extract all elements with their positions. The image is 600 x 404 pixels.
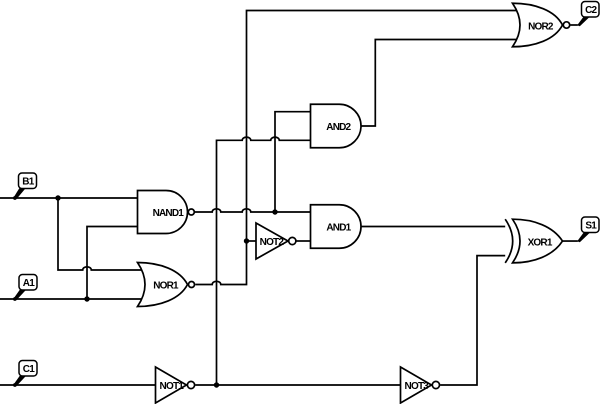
svg-text:AND1: AND1 [326, 223, 351, 234]
svg-text:AND2: AND2 [326, 122, 351, 133]
svg-text:B1: B1 [22, 177, 34, 188]
svg-text:S1: S1 [585, 221, 597, 232]
svg-text:NOT1: NOT1 [160, 381, 185, 392]
svg-text:NOT2: NOT2 [260, 237, 285, 248]
svg-text:C2: C2 [585, 5, 597, 16]
svg-text:NOR1: NOR1 [153, 281, 179, 292]
svg-text:NAND1: NAND1 [153, 208, 185, 219]
svg-text:C1: C1 [23, 364, 35, 375]
svg-text:NOT3: NOT3 [405, 381, 430, 392]
svg-text:A1: A1 [23, 278, 35, 289]
svg-text:NOR2: NOR2 [528, 21, 554, 32]
svg-text:XOR1: XOR1 [528, 237, 553, 248]
